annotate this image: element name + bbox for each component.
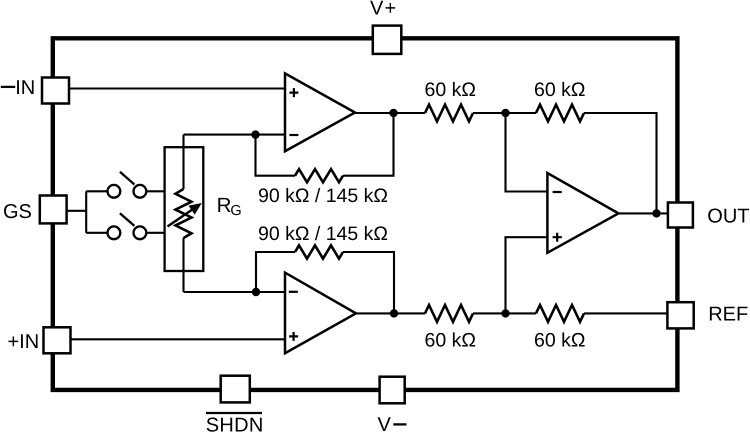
switch circle bottom-left — [108, 226, 121, 239]
R_G block rectangle — [165, 147, 204, 271]
resistor 60k top-left — [425, 105, 473, 122]
wire top switch to RG block — [146, 190, 165, 192]
switch circle bottom-right — [134, 226, 147, 239]
op-amp A2 — [285, 273, 356, 354]
svg-text:60 kΩ: 60 kΩ — [425, 79, 476, 101]
junction node A1 minus — [251, 130, 259, 138]
wire +IN to A2 + input — [70, 338, 285, 340]
op-amp A1 — [285, 73, 355, 151]
wire bottom switch branch — [86, 232, 107, 234]
wire bottom 60k to REF — [584, 312, 667, 314]
wire GS to switch branch — [67, 210, 87, 212]
op-amp A3 — [547, 173, 618, 253]
svg-text:90 kΩ / 145 kΩ: 90 kΩ / 145 kΩ — [258, 223, 388, 245]
wire A1 - input to node — [184, 134, 286, 136]
resistor 60k bottom-left — [425, 305, 473, 322]
wire RG top — [182, 135, 184, 189]
wire A2 output — [355, 312, 425, 314]
svg-text:OUT: OUT — [707, 206, 749, 228]
wire A3 + input — [506, 237, 548, 313]
wire A2 feedback left leg — [256, 252, 295, 292]
svg-text:+IN: +IN — [8, 331, 40, 353]
svg-text:R: R — [217, 194, 232, 217]
wire A1 feedback left leg — [256, 135, 296, 176]
svg-text:GS: GS — [3, 201, 32, 223]
wire A3 output to OUT — [619, 212, 668, 214]
wire switch branch vertical — [85, 191, 87, 233]
pin box V+ — [373, 26, 402, 54]
op-amp A2 plus — [289, 332, 298, 341]
svg-text:REF: REF — [708, 304, 748, 326]
svg-text:60 kΩ: 60 kΩ — [534, 79, 585, 101]
wire A1 feedback right leg — [343, 113, 394, 176]
junction node OUT — [652, 209, 660, 217]
svg-text:V+: V+ — [370, 0, 397, 20]
wire RG bottom — [182, 238, 184, 292]
wire RG bottom to A2 - input — [184, 291, 286, 293]
wire A3 - input — [506, 113, 548, 192]
op-amp A2 minus — [289, 291, 298, 293]
wire top switch branch — [86, 190, 107, 192]
label -IN — [1, 86, 15, 88]
resistor 90k/145k bottom — [295, 245, 343, 258]
svg-text:60 kΩ: 60 kΩ — [534, 330, 585, 352]
op-amp A3 plus — [553, 233, 562, 242]
SHDN overline — [206, 412, 262, 414]
wire A1 output — [355, 112, 425, 114]
wire bottom switch to RG block — [146, 232, 165, 234]
pin box SHDN — [221, 376, 250, 403]
svg-text:SHDN: SHDN — [206, 415, 264, 434]
pin box V- — [380, 377, 405, 404]
pin box GS — [40, 196, 67, 224]
op-amp A3 minus — [553, 191, 562, 193]
pin box REF — [667, 302, 693, 328]
switch circle top-right — [134, 185, 147, 198]
wire -IN to A1 + input — [69, 87, 285, 89]
switch lever bottom — [120, 213, 134, 226]
pin box +IN — [44, 327, 71, 353]
pin box -IN — [42, 78, 69, 104]
junction node A1 output — [389, 109, 397, 117]
pin box OUT — [668, 203, 693, 228]
junction node A2 output — [390, 309, 398, 317]
junction node A2 minus — [252, 288, 260, 296]
switch circle top-left — [108, 185, 121, 198]
resistor 90k/145k top — [295, 169, 343, 182]
resistor RG vertical zigzag — [176, 189, 192, 238]
wire A2 feedback right leg — [343, 252, 394, 313]
svg-text:IN: IN — [15, 77, 35, 99]
op-amp A1 plus — [289, 88, 298, 97]
svg-text:90 kΩ / 145 kΩ: 90 kΩ / 145 kΩ — [258, 185, 388, 207]
resistor 60k top-right — [536, 105, 584, 122]
RG wiper arrowhead — [189, 203, 202, 215]
wire between top 60k resistors — [473, 112, 536, 114]
svg-text:V: V — [378, 414, 392, 434]
junction node between bottom 60k — [501, 309, 509, 317]
wire top feedback to OUT node — [584, 113, 657, 213]
junction node between top 60k — [501, 109, 509, 117]
svg-text:G: G — [230, 203, 241, 219]
wire between bottom 60k resistors — [473, 312, 536, 314]
op-amp A1 minus — [289, 134, 298, 136]
resistor 60k bottom-right — [536, 305, 584, 322]
outer border — [53, 38, 678, 390]
svg-text:60 kΩ: 60 kΩ — [425, 330, 476, 352]
switch lever top — [120, 172, 134, 185]
RG wiper arrow line — [168, 207, 197, 227]
